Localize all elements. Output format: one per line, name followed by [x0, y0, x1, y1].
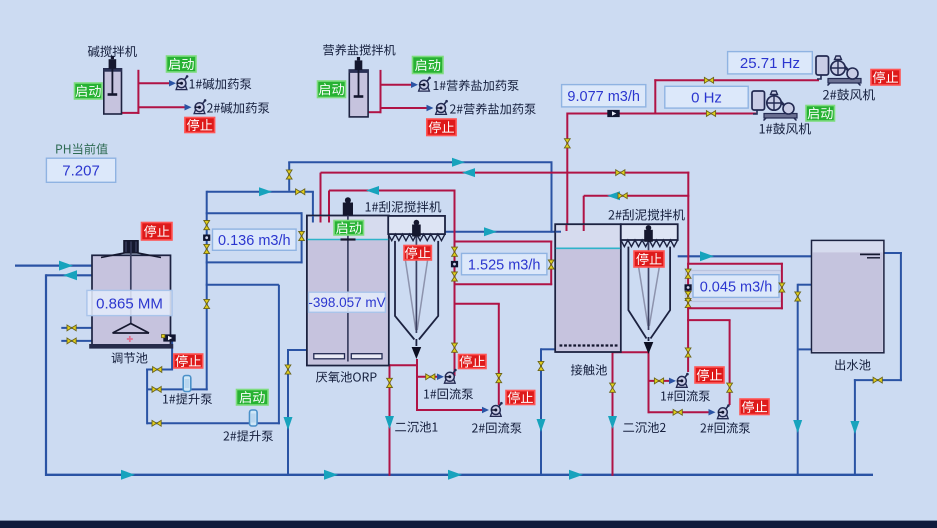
wire outlet right jog — [854, 379, 902, 381]
valve flow loop 3 lower — [685, 291, 691, 300]
pump 1# lift pump — [183, 376, 191, 392]
tank: contact tank — [555, 224, 621, 352]
contact tank water surface — [556, 247, 620, 249]
regulating tank impeller — [113, 324, 150, 334]
wire recirc contact drop — [583, 196, 585, 231]
wire clarifier1 cone outlet — [416, 359, 418, 411]
valve 2# recirc 2 suction — [673, 409, 682, 415]
wire nutrient tank outlet — [367, 111, 381, 113]
wire outlet tank stub upper — [798, 284, 813, 286]
label 2# recirc pump 2 — [700, 422, 750, 433]
display flow 2 — [462, 253, 547, 274]
arrow anaerobic drain — [284, 417, 293, 430]
svg-text:0.865 MM: 0.865 MM — [96, 295, 163, 312]
button stop regulating mixer — [142, 223, 173, 241]
wire tank outlet down — [171, 340, 173, 371]
arrow effluent — [700, 251, 714, 261]
wire to 1# alkali pump — [138, 82, 172, 84]
wire 2# recirc pump suction — [417, 409, 486, 411]
valve 2# recirc 2 discharge — [727, 383, 733, 392]
svg-text:7.207: 7.207 — [62, 163, 100, 180]
valve clarifier1 pump riser — [452, 343, 458, 352]
valve flow loop 1 bypass — [299, 231, 305, 240]
wire pump header vertical — [146, 369, 148, 425]
wire feed branch up — [288, 162, 290, 191]
label 2# lift pump — [223, 430, 273, 441]
wire spare stub 2 — [61, 340, 92, 342]
label clarifier 2 — [623, 422, 665, 433]
wire feed header — [207, 191, 314, 193]
arrow 2# nutrient pump inlet — [427, 105, 434, 112]
pump 2# lift pump — [250, 410, 258, 426]
wire outlet right down — [900, 252, 902, 381]
label 1# scraper mixer — [366, 201, 442, 213]
label 2# blower — [823, 89, 875, 101]
display flow 3 — [693, 275, 779, 298]
arrow inlet flow — [59, 261, 73, 271]
wire contact drain down right — [612, 351, 614, 476]
valve anaerobic inlet — [296, 189, 305, 195]
valve flow loop 2 bypass — [548, 260, 554, 269]
wire 1# recirc pump 2 suction — [649, 380, 673, 382]
wire overflow from regulating tank — [46, 274, 92, 276]
wire air drop to contact tank — [566, 113, 568, 232]
wire alkali mixer header — [137, 70, 139, 114]
tank: alkali mixer — [104, 69, 122, 114]
valve 1# lift pump suction — [152, 387, 161, 393]
wire recirc B drop — [328, 191, 330, 223]
display flow 3 outer panel — [686, 271, 782, 302]
arrow 2# recirc pump inlet — [482, 407, 489, 414]
arrow main 2 — [324, 470, 338, 480]
button start 2# lift pump — [237, 390, 269, 406]
arrow contact drain — [537, 419, 546, 432]
wire air line to 1# blower — [567, 113, 756, 115]
wire to pump header — [146, 369, 172, 371]
svg-text:9.077 m3/h: 9.077 m3/h — [567, 89, 640, 105]
wire 1# lift pump line — [147, 388, 208, 390]
wire effluent to outlet tank — [678, 255, 813, 257]
clarifier 2 weir box — [621, 224, 678, 240]
wire recirc to contact tank — [584, 195, 690, 197]
tank: anaerobic tank — [307, 216, 389, 366]
label regulating tank — [112, 352, 148, 363]
label 1# alkali dosing pump — [190, 78, 252, 89]
label 2# alkali dosing pump — [207, 102, 269, 113]
motor valve air header — [607, 110, 619, 117]
wire 2# lift pump line — [147, 422, 280, 424]
wire clarifier1 pump riser — [454, 284, 456, 376]
arrow clarifier1 effluent — [484, 227, 497, 236]
label 1# nutrient dosing pump — [434, 80, 519, 91]
button stop 1# recirc pump — [459, 355, 486, 369]
alkali mixer motor — [109, 59, 117, 69]
wire drain down-left — [45, 274, 47, 476]
anaerobic water surface — [308, 239, 389, 241]
svg-text:0.136 m3/h: 0.136 m3/h — [218, 233, 291, 249]
button start alkali mixer — [75, 83, 103, 99]
arrow 1# nutrient pump inlet — [411, 81, 418, 88]
wire flow loop 3 right — [781, 263, 783, 310]
label nutrient mixer — [323, 44, 395, 55]
wire clarifier2 pump riser lower — [687, 308, 689, 372]
wire drop to contact tank inlet — [551, 162, 553, 233]
button stop 2# blower — [871, 70, 900, 86]
button stop clarifier2 scraper — [634, 251, 664, 267]
wire to 1# nutrient pump — [381, 84, 415, 86]
label 1# blower — [760, 123, 811, 135]
wire outlet top right — [884, 252, 902, 254]
wire bottom collection main — [45, 474, 873, 476]
button stop 1# lift pump — [174, 354, 203, 368]
button start alkali dosing — [167, 56, 197, 72]
wire air line branch up — [654, 79, 656, 113]
wire anaerobic drain down — [287, 349, 289, 476]
valve riser below loop — [204, 299, 210, 308]
wire 1# recirc pump suction — [417, 376, 440, 378]
wire air line to 2# blower — [654, 79, 819, 81]
display air flow — [562, 85, 646, 107]
button stop 2# recirc pump 2 — [740, 399, 769, 415]
anaerobic diffuser pipes — [314, 354, 345, 359]
wire flow loop 2 top — [454, 241, 553, 243]
wire flow loop 1 top — [206, 212, 302, 214]
display 2# blower frequency — [728, 52, 813, 74]
arrow feed header — [259, 187, 272, 196]
valve air drop — [564, 139, 570, 148]
valve pump header — [153, 367, 162, 373]
wire 2# recirc pump 2 suction — [649, 411, 713, 413]
flow sensor FT-2 — [451, 261, 458, 267]
blower 2# blower — [816, 56, 861, 86]
svg-text:1.525 m3/h: 1.525 m3/h — [468, 257, 541, 273]
label PH current value — [56, 143, 107, 154]
wire spare stub 1 — [61, 327, 92, 329]
pump 1# alkali dosing pump — [176, 75, 188, 90]
outlet tank level marks — [860, 253, 880, 255]
valve contact drain — [538, 361, 544, 370]
pump 1# recirc pump (clarifier1) — [444, 369, 456, 384]
button stop alkali dosing — [185, 118, 215, 133]
arrow 1# alkali pump inlet — [169, 80, 176, 87]
anaerobic mixer motor — [343, 203, 353, 216]
wire 2# recirc 2 discharge — [729, 320, 731, 405]
valve 2# recirc discharge — [496, 374, 502, 383]
wire contact bottom drain — [613, 351, 650, 353]
valve on stub 1 — [67, 325, 76, 331]
valve 1# recirc 2 suction — [654, 378, 663, 384]
valve clarifier1 drain — [387, 378, 393, 387]
motor valve regulating tank outlet — [163, 334, 175, 341]
display regulating tank level — [87, 290, 172, 315]
arrow recirc to contact — [607, 191, 620, 200]
arrow recirc A — [462, 168, 475, 177]
clarifier 2 weir zigzag — [621, 240, 678, 247]
clarifier 1 weir box — [388, 216, 445, 234]
label 1# recirc pump — [424, 388, 473, 399]
valve flow loop 2 lower — [452, 272, 458, 281]
clarifier 2 underflow arrow — [644, 342, 654, 354]
wire flow loop 3 left — [687, 263, 689, 310]
wire to 2# alkali pump — [138, 106, 188, 108]
arrow 1# recirc pump inlet — [437, 374, 444, 381]
pump 2# recirc pump (clarifier2) — [717, 404, 729, 419]
tank: nutrient salt mixer — [349, 70, 368, 117]
wire contact drain stub — [541, 348, 556, 350]
label 1# lift pump — [163, 393, 212, 404]
clarifier 1 scraper motor — [412, 225, 421, 237]
arrow contact drain right — [608, 416, 617, 429]
label contact tank — [571, 364, 607, 375]
wire anaerobic drain stub — [288, 349, 308, 351]
wire flow loop 3 top — [687, 263, 783, 265]
wire final discharge down — [854, 379, 856, 476]
flow sensor FT-1 — [203, 235, 210, 241]
wire contact drain down — [540, 348, 542, 476]
button start nutrient mixer — [318, 81, 346, 98]
clarifier 2 rake — [638, 260, 649, 326]
pump 2# alkali dosing pump — [194, 99, 206, 114]
blower 1# blower — [752, 91, 797, 121]
wire clarifier1 drain down — [389, 364, 391, 476]
arrow clarifier1 drain — [385, 416, 394, 429]
arrow final discharge — [850, 421, 859, 434]
wire feed to contact tank — [288, 161, 552, 163]
wire recirc stub inside contact tank — [583, 225, 585, 231]
wire inlet to regulating tank — [15, 265, 92, 267]
valve 2# blower line — [704, 77, 713, 83]
arrow main 1 — [121, 470, 135, 480]
contact tank diffusers — [560, 344, 618, 346]
valve flow loop 3 lower 2 — [685, 298, 691, 307]
label 2# recirc pump — [472, 422, 522, 433]
display ORP value — [309, 292, 386, 312]
valve 1# blower line — [706, 111, 715, 117]
flow sensor FT-3 — [685, 284, 692, 290]
drain cross mark — [127, 338, 133, 340]
wire 2# pump riser — [278, 285, 280, 425]
valve clarifier2 pump riser — [685, 348, 691, 357]
label outlet tank — [835, 359, 870, 370]
wire flow loop 2 right — [550, 241, 552, 286]
wire pump manifold — [206, 284, 279, 286]
button stop 2# recirc pump — [506, 391, 535, 405]
wire recirc B stub inside tank — [328, 216, 330, 223]
valve 1# recirc suction — [426, 374, 435, 380]
nutrient mixer motor — [355, 60, 363, 70]
svg-text:0 Hz: 0 Hz — [691, 90, 722, 107]
button stop 1# recirc pump 2 — [695, 367, 724, 383]
arrow 2# alkali pump inlet — [185, 104, 192, 111]
valve flow loop 2 upper — [452, 247, 458, 256]
valve flow loop 3 bypass — [779, 283, 785, 292]
wire flow loop 1 right — [301, 212, 303, 263]
valve recirc to contact — [618, 193, 627, 199]
wire clarifier2 riser upper — [687, 172, 689, 265]
bottom dark strip — [0, 521, 937, 528]
wire recirc to anaerobic B — [329, 190, 456, 192]
tank: regulating tank — [92, 255, 171, 345]
label 2# scraper mixer — [609, 209, 685, 221]
arrow main 4 — [569, 470, 583, 480]
valve recirc A — [616, 170, 625, 176]
clarifier 2 scraper motor — [644, 230, 653, 242]
wire outlet tank drain down — [797, 284, 799, 476]
button start nutrient dosing — [413, 57, 444, 74]
wire riser from lift pumps — [206, 191, 208, 391]
clarifier 1 rake — [405, 254, 416, 330]
label alkali mixer — [88, 46, 137, 57]
valve on stub 2 — [67, 338, 76, 344]
wire feed stub inside anaerobic tank — [312, 216, 314, 223]
valve feed branch — [286, 170, 292, 179]
wire anaerobic bottom drain — [388, 364, 418, 366]
wire outlet tank stub lower — [798, 348, 813, 350]
wire flow loop 2 left — [454, 241, 456, 286]
anaerobic mixer shaft — [347, 216, 349, 362]
button stop nutrient dosing — [427, 119, 456, 136]
clarifier 2 body — [628, 247, 670, 339]
button start anaerobic scraper — [334, 221, 364, 236]
valve contact drain right — [610, 383, 616, 392]
label 2# nutrient dosing pump — [450, 103, 536, 114]
wire flow loop 2 bottom — [454, 283, 553, 285]
wire flow loop 1 bottom — [206, 261, 303, 263]
clarifier 1 body — [395, 241, 438, 340]
wire nutrient mixer header — [380, 70, 382, 113]
valve flow loop 3 upper — [685, 269, 691, 278]
arrow 2# recirc 2 inlet — [709, 409, 716, 416]
display flow 1 — [213, 229, 297, 250]
pump 2# nutrient dosing pump — [436, 100, 448, 115]
svg-text:25.71 Hz: 25.71 Hz — [740, 55, 800, 72]
arrow outlet drain — [793, 420, 802, 433]
wire to 2# nutrient pump — [381, 107, 431, 109]
arrow main 3 — [448, 470, 462, 480]
wire 2# recirc 2 to riser — [687, 319, 731, 321]
tank: outlet tank — [812, 240, 884, 352]
pump 2# recirc pump (clarifier1) — [490, 402, 502, 417]
arrow overflow flow — [63, 270, 77, 280]
arrow recirc B — [366, 186, 379, 195]
wire recirc A stub inside tank — [320, 216, 322, 223]
valve riser upper — [204, 221, 210, 230]
button start 1# blower — [806, 106, 835, 122]
wire alkali tank outlet — [121, 112, 140, 114]
wire 2# discharge to riser — [454, 303, 500, 305]
wire air stub inside contact tank — [566, 225, 568, 231]
pump 1# recirc pump (clarifier2) — [676, 373, 688, 388]
label clarifier 1 — [395, 421, 437, 432]
wire 2# recirc pump discharge — [498, 304, 500, 405]
wire recirc B riser — [454, 190, 456, 243]
clarifier 1 weir zigzag — [388, 234, 445, 241]
wire clarifier1 effluent to contact tank — [445, 231, 556, 233]
display 1# blower frequency — [665, 86, 748, 108]
valve riser lower — [204, 244, 210, 253]
label anaerobic tank ORP — [316, 371, 377, 382]
button stop clarifier1 scraper — [404, 246, 431, 261]
valve outlet drain — [795, 292, 801, 301]
wire drop into anaerobic tank — [312, 192, 314, 222]
wire recirc A drop — [320, 173, 322, 222]
wire clarifier2 cone outlet — [648, 352, 650, 413]
arrow feed to contact tank — [452, 158, 465, 167]
regulating tank mixer — [123, 240, 139, 254]
svg-text:0.045 m3/h: 0.045 m3/h — [700, 279, 773, 295]
wire recirc to anaerobic A — [321, 172, 690, 174]
svg-text:-398.057 mV: -398.057 mV — [308, 295, 385, 310]
valve anaerobic drain — [285, 365, 291, 374]
arrow 1# recirc 2 inlet — [669, 378, 676, 385]
label 1# recirc pump 2 — [661, 390, 710, 401]
valve outlet discharge — [873, 377, 882, 383]
pump 1# nutrient dosing pump — [419, 77, 431, 92]
clarifier 1 underflow arrow — [412, 347, 422, 359]
wire flow loop 3 bottom — [687, 307, 783, 309]
display PH value — [46, 158, 115, 182]
wire feed stub inside contact tank — [556, 231, 562, 233]
valve 2# lift pump suction — [152, 420, 161, 426]
